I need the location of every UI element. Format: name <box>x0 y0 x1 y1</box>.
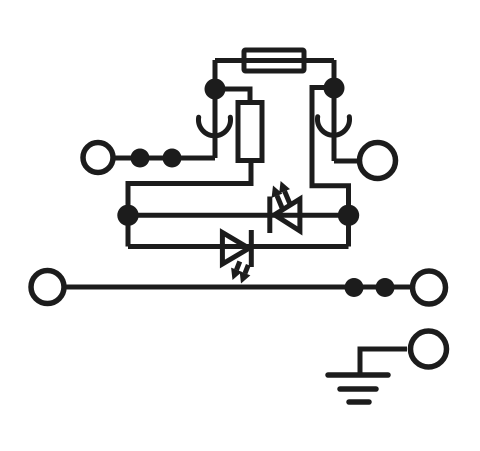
ground bar 3 <box>349 399 369 405</box>
test socket arc (left) <box>199 117 231 136</box>
junction dot D (LED line right) <box>338 205 359 226</box>
wire: right branch down to LED network <box>312 88 349 247</box>
contact dot 1 (left feed) <box>131 149 150 168</box>
wire: left drop from fuse to left test stem <box>213 60 218 158</box>
wire: bottom through line <box>63 285 410 290</box>
wire: right output horizontal to test circle <box>334 159 359 164</box>
contact dot 4 (bottom line) <box>376 278 395 297</box>
LED D2 arrow 1 <box>231 261 242 280</box>
wire: resistor top lead from junction A <box>215 89 250 103</box>
LED D2 (points right) triangle <box>222 233 249 265</box>
LED D1 triangle <box>275 199 300 231</box>
LED D2 arrow 2 <box>240 265 251 284</box>
wire: upper LED line <box>128 213 349 218</box>
wire: left input horizontal <box>112 156 215 161</box>
LED D1 arrow 2 <box>279 181 290 204</box>
terminal circle: bottom left <box>31 271 64 304</box>
wire: lower LED line <box>128 244 349 249</box>
terminal circle: bottom right <box>413 271 446 304</box>
junction dot A (left, below fuse) <box>205 79 226 100</box>
contact dot 2 (left feed) <box>163 149 182 168</box>
LED D2 cathode bar <box>249 230 254 267</box>
LED D1 arrow 1 <box>272 186 283 209</box>
ground bar 1 <box>328 372 388 378</box>
wire: ground lead <box>360 349 407 375</box>
ground bar 2 <box>340 386 376 392</box>
wire: right drop from fuse through right test stem <box>332 60 337 161</box>
terminal circle: left input socket <box>83 143 113 173</box>
test socket arc (right) <box>317 117 349 136</box>
terminal circle: ground terminal <box>411 331 447 367</box>
junction dot C (LED line left) <box>117 205 138 226</box>
resistor R1 <box>238 103 262 161</box>
wire: fuse feed-through horizontal <box>215 58 334 63</box>
wire: resistor bottom lead down-left to LED network <box>128 160 251 247</box>
LED D1 (points left) cathode bar <box>267 197 272 234</box>
junction dot B (right, below fuse) <box>324 78 345 99</box>
fuse F1 <box>244 50 304 71</box>
contact dot 3 (bottom line) <box>345 278 364 297</box>
terminal circle: right test socket <box>360 143 396 179</box>
